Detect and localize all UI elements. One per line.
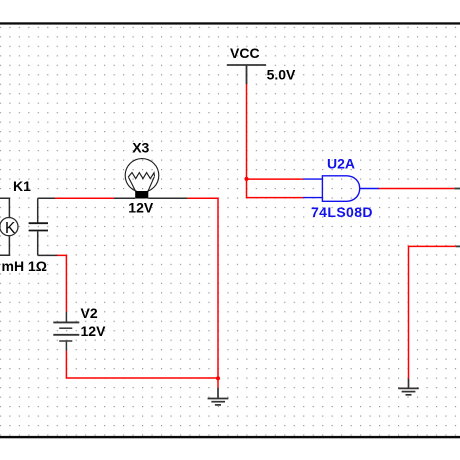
svg-text:VCC: VCC — [230, 45, 260, 61]
ground G2 — [398, 379, 419, 395]
wire from right edge to ground 2 — [409, 246, 456, 378]
power symbol VCC — [227, 65, 266, 84]
svg-text:K: K — [5, 220, 16, 237]
svg-text:U2A: U2A — [327, 156, 355, 172]
svg-text:12V: 12V — [81, 323, 107, 339]
AND gate U2A body — [322, 176, 359, 202]
svg-text:5.0V: 5.0V — [267, 66, 296, 82]
wire contact bottom to battery (red) — [57, 255, 66, 311]
wire contact to lamp (red) — [55, 197, 114, 199]
contact pin stubs — [38, 197, 55, 199]
contact plate lower — [29, 230, 48, 232]
junction dot at VCC net — [244, 177, 248, 181]
sheet border bottom — [0, 436, 460, 438]
pin stub at right edge (output net) — [454, 188, 460, 190]
battery V2 top pin — [65, 312, 67, 322]
svg-text:V2: V2 — [81, 305, 98, 321]
contact plate upper — [29, 222, 48, 224]
battery V2 plates — [53, 322, 79, 341]
sheet border top — [0, 22, 460, 24]
lamp X3 left pin — [114, 197, 136, 199]
relay coil circle — [0, 218, 18, 236]
junction dot at ground net — [216, 376, 220, 380]
relay K1 coil branch: top stub — [0, 198, 18, 255]
wire junction to gate input 1 — [247, 178, 304, 180]
lamp X3 right pin — [148, 197, 187, 199]
battery V2 bottom pin — [65, 342, 67, 351]
AND gate U2A input pins 1 and 2 — [303, 179, 379, 198]
wire battery bottom to ground junction — [66, 351, 218, 378]
wire lamp to right corner and down to ground junction — [188, 198, 218, 378]
wire ground junction down — [217, 378, 219, 388]
ground G1 — [208, 388, 229, 405]
lamp X3 bulb — [125, 159, 159, 193]
svg-text:K1: K1 — [13, 178, 31, 194]
lamp base — [135, 191, 148, 199]
svg-text:12V: 12V — [128, 200, 154, 216]
svg-text:X3: X3 — [132, 139, 149, 155]
filament supports — [129, 177, 136, 191]
relay K1 contact branch — [29, 198, 57, 255]
pin output — [360, 188, 379, 190]
svg-text:74LS08D: 74LS08D — [311, 204, 373, 220]
filament zigzag — [128, 173, 154, 179]
wire gate output to right edge — [379, 188, 454, 190]
wire junction down and to gate input 2 — [247, 179, 304, 198]
svg-text:mH 1Ω: mH 1Ω — [2, 258, 47, 274]
pin stub at right edge (coil net) — [456, 245, 460, 247]
wire VCC down to junction — [246, 84, 248, 179]
